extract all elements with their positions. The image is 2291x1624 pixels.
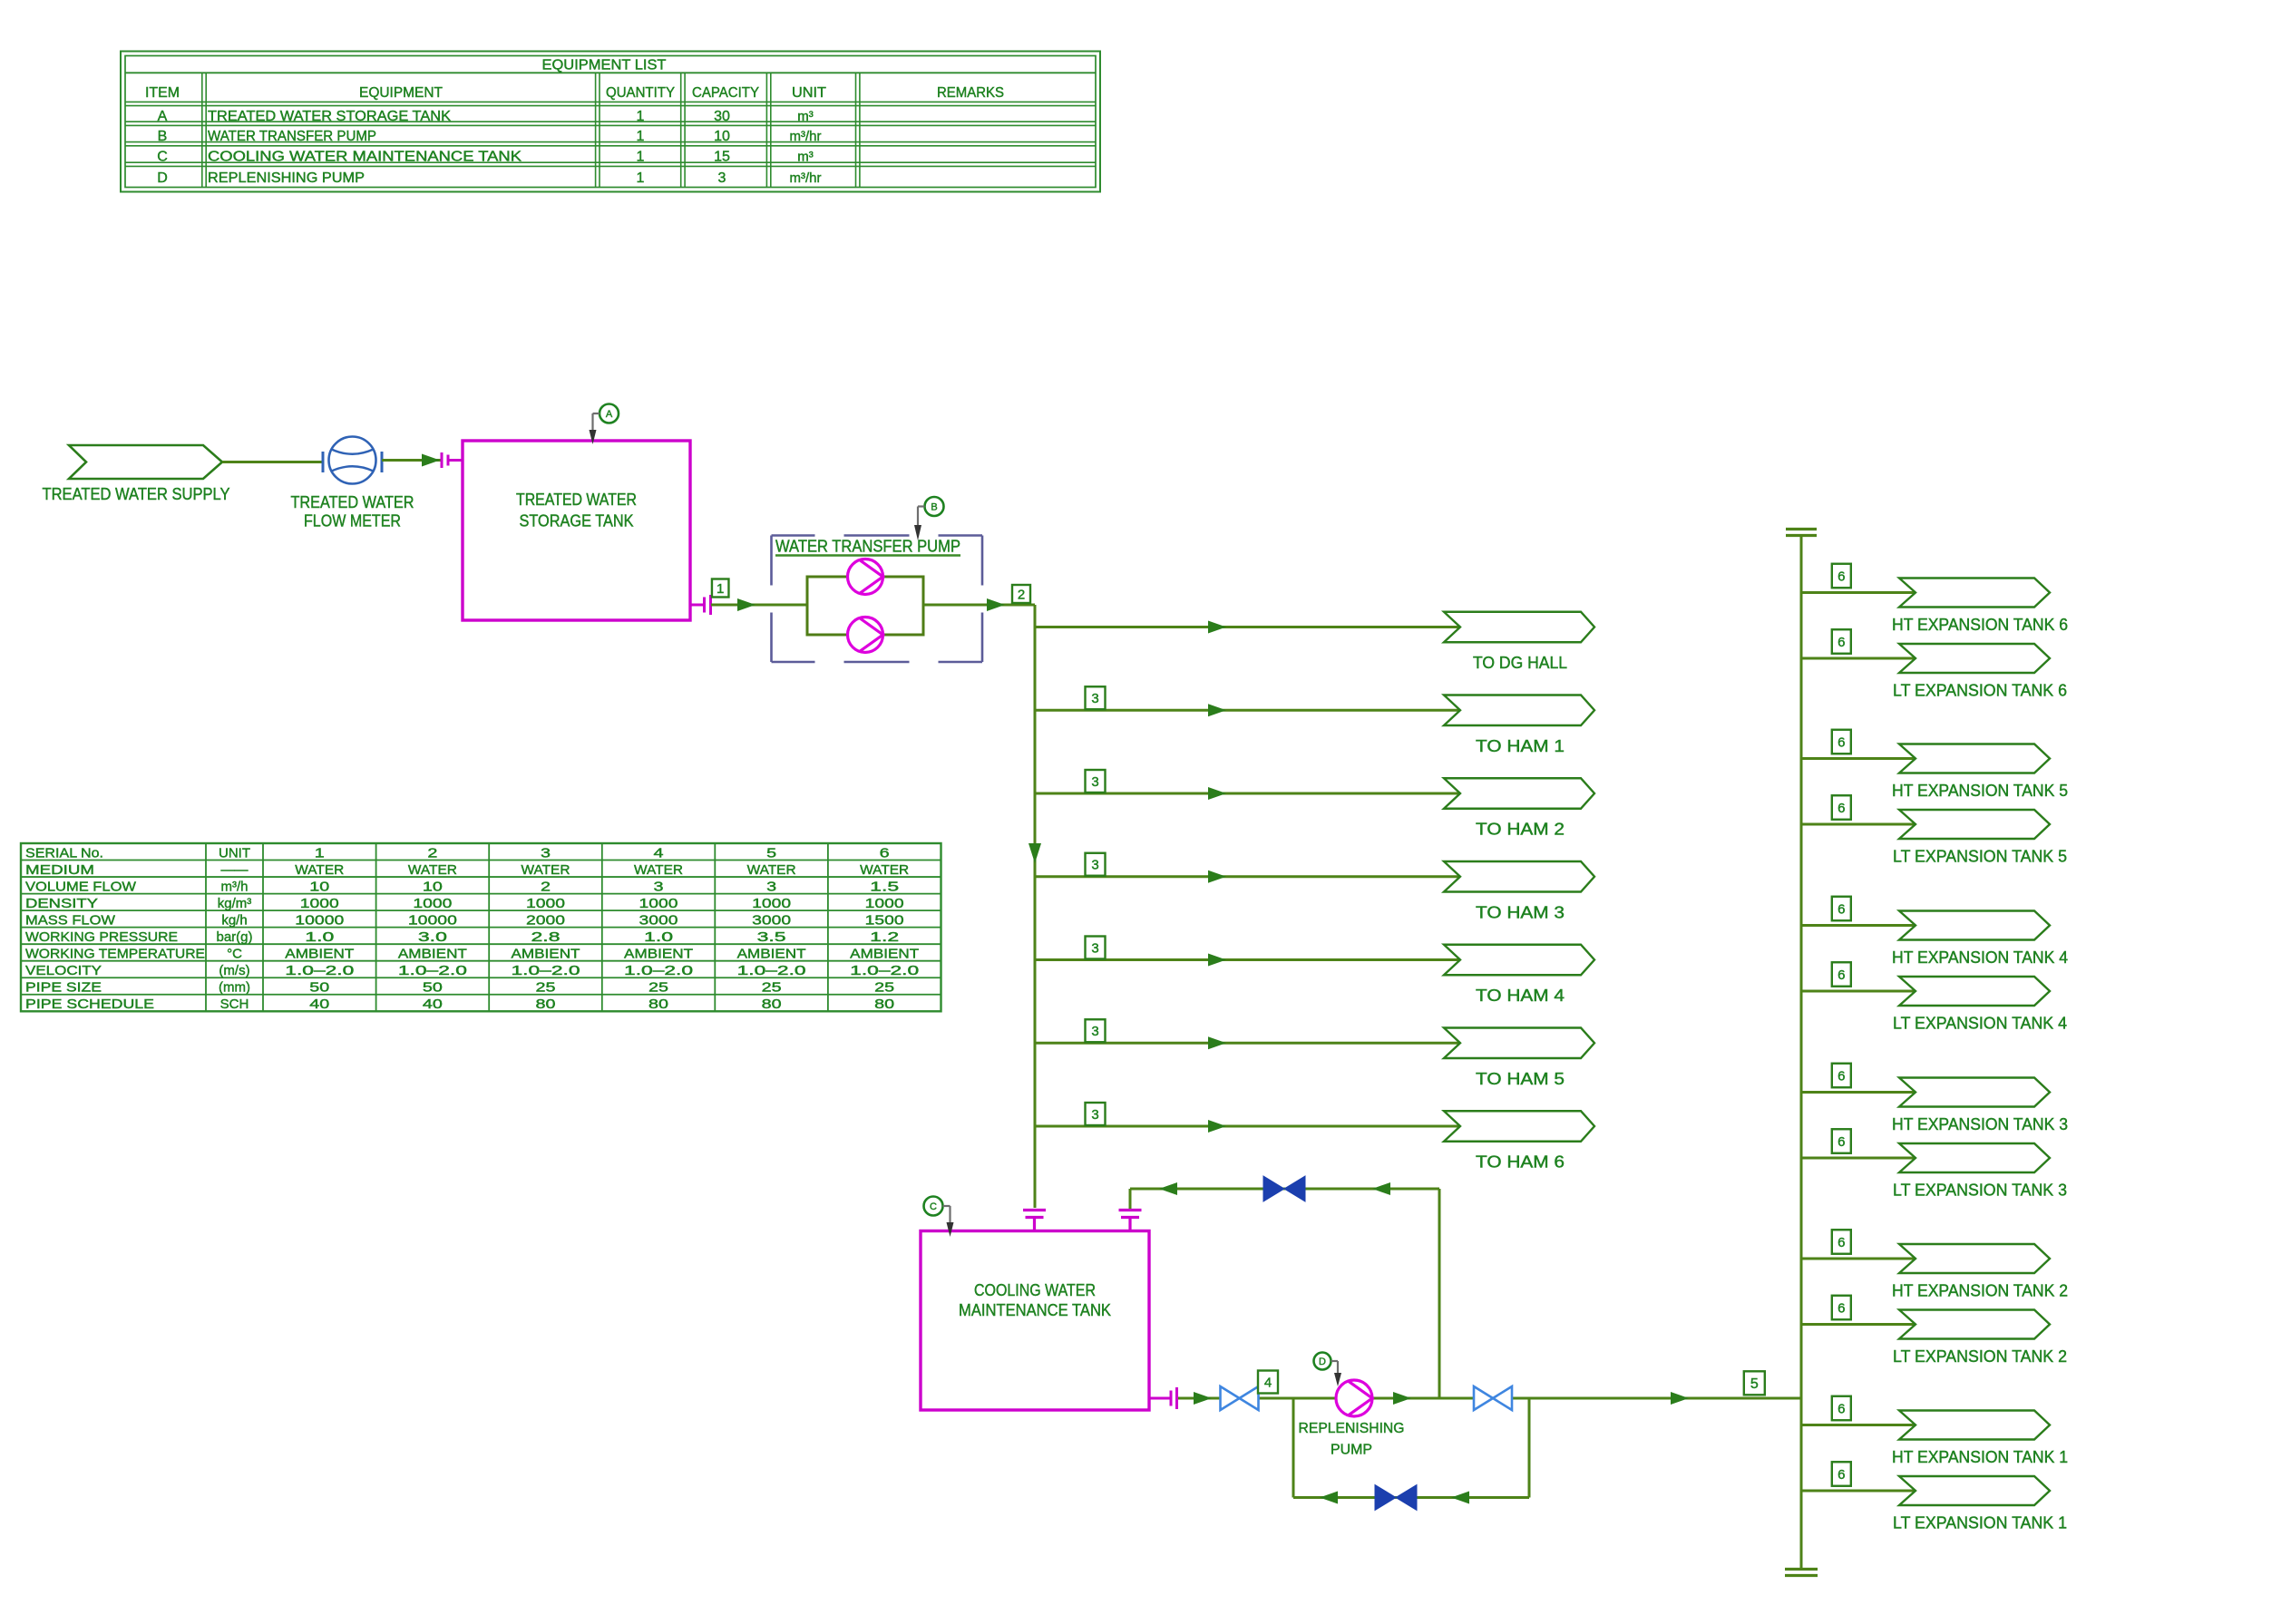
svg-text:TO HAM 3: TO HAM 3	[1476, 903, 1565, 921]
svg-text:TO HAM 6: TO HAM 6	[1476, 1153, 1565, 1172]
svg-text:°C: °C	[227, 946, 242, 961]
svg-text:D: D	[1319, 1357, 1326, 1367]
svg-text:ITEM: ITEM	[145, 85, 180, 101]
svg-text:WATER: WATER	[408, 862, 457, 878]
node 6 (HT 3)	[1832, 1064, 1851, 1088]
svg-text:FLOW METER: FLOW METER	[304, 512, 401, 530]
svg-text:m³: m³	[797, 109, 814, 124]
svg-text:WATER: WATER	[522, 862, 570, 878]
svg-text:2000: 2000	[526, 912, 565, 928]
valve (closed) on return bypass	[1263, 1176, 1305, 1201]
pump B (top)	[848, 559, 883, 595]
svg-text:TO HAM 4: TO HAM 4	[1476, 987, 1565, 1005]
pump parallel loop rectangle	[807, 577, 923, 635]
svg-text:LT EXPANSION TANK 1: LT EXPANSION TANK 1	[1893, 1514, 2067, 1532]
svg-text:MASS FLOW: MASS FLOW	[25, 912, 116, 928]
svg-text:AMBIENT: AMBIENT	[398, 946, 467, 961]
off-page connector banner TO HAM 2	[1444, 778, 1594, 809]
node 6 (LT 4)	[1832, 962, 1851, 987]
svg-text:m³/h: m³/h	[221, 879, 249, 894]
flow arrow	[737, 598, 756, 611]
off-page connector banner LT EXPANSION TANK 4	[1899, 977, 2050, 1006]
wire tank A outlet to pump loop	[711, 604, 807, 607]
gate valve (open)	[1221, 1386, 1259, 1410]
svg-text:3: 3	[654, 879, 664, 894]
instrument connector to pump D	[1331, 1360, 1339, 1362]
svg-text:1: 1	[637, 129, 645, 144]
svg-text:80: 80	[762, 997, 782, 1012]
header pipe cap (top)	[1786, 528, 1817, 530]
svg-text:3: 3	[766, 879, 776, 894]
svg-text:1: 1	[717, 581, 724, 597]
svg-text:1000: 1000	[639, 896, 678, 911]
serial data table	[21, 843, 941, 1012]
svg-text:1: 1	[637, 149, 645, 164]
svg-text:WATER TRANSFER PUMP: WATER TRANSFER PUMP	[775, 538, 960, 556]
svg-text:25: 25	[648, 980, 668, 996]
svg-text:40: 40	[309, 997, 329, 1012]
flange at tank A outlet	[690, 604, 705, 607]
svg-text:C: C	[930, 1201, 937, 1212]
svg-text:AMBIENT: AMBIENT	[285, 946, 354, 961]
off-page connector banner TO HAM 6	[1444, 1111, 1594, 1142]
svg-text:LT EXPANSION TANK 5: LT EXPANSION TANK 5	[1893, 848, 2067, 866]
svg-text:HT EXPANSION TANK 3: HT EXPANSION TANK 3	[1892, 1115, 2068, 1133]
svg-text:40: 40	[423, 997, 443, 1012]
svg-text:1.0–2.0: 1.0–2.0	[624, 963, 693, 978]
svg-text:2.8: 2.8	[531, 929, 561, 945]
treated water flow meter	[329, 437, 376, 484]
flow arrow into tank A	[422, 454, 440, 467]
svg-text:1.0: 1.0	[305, 929, 334, 945]
pump B (bottom)	[848, 618, 883, 653]
svg-text:REMARKS: REMARKS	[937, 85, 1004, 101]
svg-text:(mm): (mm)	[219, 980, 250, 996]
node 5	[1744, 1371, 1765, 1395]
svg-text:TO HAM 1: TO HAM 1	[1476, 737, 1565, 755]
instrument bubble D	[1314, 1353, 1331, 1370]
svg-text:D: D	[157, 170, 168, 186]
svg-text:EQUIPMENT: EQUIPMENT	[359, 85, 443, 101]
svg-text:WATER: WATER	[860, 862, 909, 878]
node 2	[1012, 585, 1030, 603]
node 3 (TO HAM 2)	[1086, 770, 1106, 793]
instrument connector to pump skid	[918, 505, 925, 507]
svg-text:TREATED WATER: TREATED WATER	[291, 493, 414, 511]
node 3 (TO HAM 6)	[1086, 1103, 1106, 1125]
svg-text:SERIAL No.: SERIAL No.	[25, 845, 103, 861]
svg-text:80: 80	[874, 997, 894, 1012]
off-page connector banner TO DG HALL	[1444, 612, 1594, 643]
svg-text:MAINTENANCE TANK: MAINTENANCE TANK	[959, 1301, 1111, 1319]
valve (closed) on pump bypass	[1375, 1485, 1417, 1511]
svg-text:1000: 1000	[865, 896, 904, 911]
svg-text:2: 2	[427, 845, 437, 861]
svg-text:m³/hr: m³/hr	[790, 129, 822, 144]
svg-text:10: 10	[309, 879, 329, 894]
flow arrow TO DG HALL	[1208, 621, 1226, 634]
pump bypass down wire (left)	[1292, 1398, 1295, 1498]
off-page connector banner LT EXPANSION TANK 3	[1899, 1143, 2050, 1172]
flow arrow to header	[1671, 1392, 1689, 1405]
svg-text:4: 4	[1264, 1375, 1272, 1390]
svg-text:TREATED WATER: TREATED WATER	[516, 491, 637, 509]
flange at tank A inlet	[441, 452, 444, 468]
node 4	[1258, 1371, 1278, 1394]
flow meter flange ticks	[322, 452, 325, 472]
branch wire: TO HAM 6	[1035, 1125, 1460, 1128]
svg-text:1.0: 1.0	[644, 929, 673, 945]
svg-text:3: 3	[1091, 858, 1098, 873]
svg-text:10: 10	[423, 879, 443, 894]
svg-text:1500: 1500	[865, 912, 904, 928]
node 6 (HT 1)	[1832, 1396, 1851, 1421]
pump bypass down wire (right)	[1528, 1398, 1531, 1498]
svg-text:B: B	[931, 502, 937, 513]
svg-text:AMBIENT: AMBIENT	[850, 946, 919, 961]
svg-text:WORKING TEMPERATURE: WORKING TEMPERATURE	[25, 946, 205, 961]
svg-text:HT EXPANSION TANK 1: HT EXPANSION TANK 1	[1892, 1448, 2068, 1466]
flow arrow left	[1320, 1492, 1338, 1504]
svg-text:1: 1	[637, 170, 645, 186]
off-page connector banner LT EXPANSION TANK 5	[1899, 810, 2050, 839]
svg-text:TREATED WATER SUPPLY: TREATED WATER SUPPLY	[43, 485, 230, 503]
instrument bubble C	[924, 1197, 943, 1216]
svg-text:6: 6	[1838, 801, 1845, 816]
svg-text:HT EXPANSION TANK 4: HT EXPANSION TANK 4	[1892, 948, 2068, 967]
tank C right top nozzle	[1119, 1209, 1142, 1211]
flow arrow	[987, 598, 1005, 611]
svg-text:AMBIENT: AMBIENT	[512, 946, 580, 961]
wire: return bypass elbow above tank C	[1129, 1189, 1132, 1209]
off-page connector banner HT EXPANSION TANK 2	[1899, 1244, 2050, 1273]
svg-text:1.2: 1.2	[870, 929, 899, 945]
off-page connector banner LT EXPANSION TANK 6	[1899, 644, 2050, 673]
node 6 (HT 2)	[1832, 1230, 1851, 1254]
flow arrow down	[1029, 843, 1041, 863]
svg-text:1000: 1000	[526, 896, 565, 911]
branch wire HT expansion tank 5	[1801, 757, 1916, 760]
off-page connector banner HT EXPANSION TANK 1	[1899, 1411, 2050, 1440]
flange at tank C outlet	[1149, 1397, 1171, 1400]
svg-text:1000: 1000	[752, 896, 791, 911]
svg-text:WATER: WATER	[747, 862, 796, 878]
svg-text:AMBIENT: AMBIENT	[737, 946, 806, 961]
svg-text:MEDIUM: MEDIUM	[25, 862, 94, 878]
svg-text:A: A	[606, 409, 613, 420]
gate valve (open) 2	[1474, 1386, 1512, 1410]
svg-text:6: 6	[1838, 1068, 1845, 1084]
svg-text:m³: m³	[797, 149, 814, 164]
svg-text:REPLENISHING: REPLENISHING	[1299, 1421, 1405, 1436]
svg-text:3: 3	[1091, 691, 1098, 706]
node 3 (TO HAM 1)	[1086, 686, 1106, 709]
branch wire LT expansion tank 2	[1801, 1323, 1916, 1326]
svg-text:bar(g): bar(g)	[216, 929, 252, 945]
svg-text:80: 80	[648, 997, 668, 1012]
svg-text:LT EXPANSION TANK 4: LT EXPANSION TANK 4	[1893, 1015, 2067, 1033]
branch wire HT expansion tank 4	[1801, 924, 1916, 927]
node 3 (TO HAM 3)	[1086, 853, 1106, 876]
svg-text:4: 4	[654, 845, 664, 861]
tank C left top nozzle	[1023, 1209, 1046, 1211]
node 6 (LT 2)	[1832, 1296, 1851, 1320]
off-page connector banner HT EXPANSION TANK 4	[1899, 911, 2050, 940]
svg-text:25: 25	[874, 980, 894, 996]
equipment A: TREATED WATER STORAGE TANK	[463, 441, 690, 620]
svg-text:TREATED WATER STORAGE TANK: TREATED WATER STORAGE TANK	[208, 109, 451, 124]
svg-text:SCH: SCH	[220, 997, 249, 1012]
svg-text:10: 10	[714, 129, 730, 144]
wire: vertical distribution drop from node 2	[1034, 605, 1037, 1208]
flow arrow TO HAM 3	[1208, 870, 1226, 883]
svg-text:25: 25	[762, 980, 782, 996]
svg-text:50: 50	[423, 980, 443, 996]
branch wire: TO HAM 5	[1035, 1042, 1460, 1045]
svg-text:1.0–2.0: 1.0–2.0	[850, 963, 919, 978]
instrument connector to tank A	[593, 413, 600, 414]
svg-text:TO HAM 2: TO HAM 2	[1476, 821, 1565, 839]
off-page connector banner LT EXPANSION TANK 1	[1899, 1476, 2050, 1505]
branch wire HT expansion tank 6	[1801, 591, 1916, 594]
svg-text:1.0–2.0: 1.0–2.0	[398, 963, 467, 978]
node 6 (HT 6)	[1832, 564, 1851, 588]
node 6 (LT 6)	[1832, 629, 1851, 654]
branch wire: TO HAM 4	[1035, 958, 1460, 961]
node 6 (HT 4)	[1832, 897, 1851, 921]
instrument connector to tank C	[943, 1205, 951, 1207]
svg-text:6: 6	[1838, 968, 1845, 983]
flow arrow TO HAM 6	[1208, 1120, 1226, 1133]
off-page connector banner HT EXPANSION TANK 3	[1899, 1078, 2050, 1107]
flow arrow TO HAM 1	[1208, 704, 1226, 716]
branch wire: TO HAM 3	[1035, 875, 1460, 878]
branch wire LT expansion tank 5	[1801, 823, 1916, 826]
svg-text:COOLING WATER MAINTENANCE TANK: COOLING WATER MAINTENANCE TANK	[208, 149, 522, 164]
svg-text:WATER TRANSFER PUMP: WATER TRANSFER PUMP	[208, 129, 376, 144]
svg-text:WORKING PRESSURE: WORKING PRESSURE	[25, 929, 178, 945]
svg-text:6: 6	[880, 845, 890, 861]
branch wire LT expansion tank 1	[1801, 1490, 1916, 1493]
svg-text:50: 50	[309, 980, 329, 996]
node 6 (HT 5)	[1832, 730, 1851, 754]
svg-text:m³/hr: m³/hr	[790, 170, 822, 186]
svg-text:HT EXPANSION TANK 2: HT EXPANSION TANK 2	[1892, 1282, 2068, 1300]
svg-text:6: 6	[1838, 1300, 1845, 1316]
svg-text:2: 2	[541, 879, 551, 894]
node 1	[712, 579, 729, 598]
svg-text:STORAGE TANK: STORAGE TANK	[520, 512, 634, 530]
branch wire LT expansion tank 6	[1801, 657, 1916, 660]
off-page connector banner LT EXPANSION TANK 2	[1899, 1310, 2050, 1339]
svg-text:10000: 10000	[408, 912, 457, 928]
svg-text:DENSITY: DENSITY	[25, 896, 98, 911]
svg-text:WATER: WATER	[634, 862, 683, 878]
flow arrow TO HAM 4	[1208, 954, 1226, 967]
svg-text:A: A	[158, 109, 168, 124]
svg-text:VOLUME FLOW: VOLUME FLOW	[25, 879, 137, 894]
equipment list table	[121, 52, 1100, 192]
wire: flow meter to tank A	[382, 459, 441, 462]
svg-text:WATER: WATER	[295, 862, 344, 878]
svg-text:6: 6	[1838, 1401, 1845, 1416]
svg-text:80: 80	[536, 997, 556, 1012]
svg-text:6: 6	[1838, 1134, 1845, 1150]
flow arrow TO HAM 5	[1208, 1036, 1226, 1049]
svg-text:1.0–2.0: 1.0–2.0	[737, 963, 806, 978]
flow arrow	[1194, 1392, 1212, 1405]
branch wire LT expansion tank 4	[1801, 990, 1916, 993]
svg-text:PUMP: PUMP	[1331, 1443, 1372, 1458]
svg-text:6: 6	[1838, 635, 1845, 650]
svg-text:kg/h: kg/h	[221, 912, 247, 928]
svg-text:10000: 10000	[295, 912, 344, 928]
instrument bubble A	[600, 404, 619, 423]
node 6 (LT 5)	[1832, 795, 1851, 820]
branch wire: TO HAM 2	[1035, 793, 1460, 795]
flow arrow left (return)	[1159, 1182, 1177, 1195]
svg-text:2: 2	[1018, 587, 1025, 602]
svg-text:6: 6	[1838, 901, 1845, 917]
svg-text:COOLING WATER: COOLING WATER	[974, 1281, 1096, 1299]
svg-text:5: 5	[766, 845, 776, 861]
svg-text:25: 25	[536, 980, 556, 996]
svg-text:1.0–2.0: 1.0–2.0	[285, 963, 354, 978]
svg-text:3: 3	[1091, 774, 1098, 790]
off-page connector banner HT EXPANSION TANK 6	[1899, 579, 2050, 608]
svg-text:EQUIPMENT LIST: EQUIPMENT LIST	[542, 58, 667, 73]
svg-text:5: 5	[1750, 1376, 1759, 1392]
svg-text:CAPACITY: CAPACITY	[692, 85, 759, 101]
branch wire LT expansion tank 3	[1801, 1157, 1916, 1160]
svg-text:1000: 1000	[413, 896, 452, 911]
svg-text:6: 6	[1838, 1235, 1845, 1250]
flow arrow after pump	[1393, 1392, 1411, 1405]
node 3 (TO HAM 4)	[1086, 937, 1106, 959]
svg-text:REPLENISHING PUMP: REPLENISHING PUMP	[208, 170, 365, 186]
wire pump loop to node 2	[923, 604, 1035, 607]
svg-text:LT EXPANSION TANK 3: LT EXPANSION TANK 3	[1893, 1182, 2067, 1200]
svg-text:HT EXPANSION TANK 5: HT EXPANSION TANK 5	[1892, 782, 2068, 800]
branch wire: TO DG HALL	[1035, 626, 1460, 628]
svg-text:3.5: 3.5	[757, 929, 786, 945]
svg-text:LT EXPANSION TANK 2: LT EXPANSION TANK 2	[1893, 1347, 2067, 1366]
svg-text:30: 30	[714, 109, 730, 124]
svg-text:LT EXPANSION TANK 6: LT EXPANSION TANK 6	[1893, 682, 2067, 700]
branch wire HT expansion tank 3	[1801, 1091, 1916, 1094]
svg-text:AMBIENT: AMBIENT	[624, 946, 693, 961]
flow arrow left (return)	[1372, 1182, 1390, 1195]
branch wire HT expansion tank 1	[1801, 1424, 1916, 1426]
off-page connector banner TO HAM 4	[1444, 945, 1594, 976]
svg-text:PIPE SIZE: PIPE SIZE	[25, 980, 102, 996]
svg-text:3000: 3000	[752, 912, 791, 928]
svg-text:1.0–2.0: 1.0–2.0	[512, 963, 580, 978]
off-page connector banner TO HAM 3	[1444, 861, 1594, 892]
flow arrow TO HAM 2	[1208, 787, 1226, 800]
svg-text:3: 3	[1091, 1107, 1098, 1123]
wire: bypass riser	[1438, 1189, 1441, 1398]
svg-text:1: 1	[637, 109, 645, 124]
wire: expansion header	[1800, 536, 1803, 1570]
svg-text:QUANTITY: QUANTITY	[606, 85, 675, 101]
node 6 (LT 1)	[1832, 1462, 1851, 1486]
off-page connector banner TO HAM 5	[1444, 1028, 1594, 1059]
svg-text:6: 6	[1838, 1467, 1845, 1483]
wire: pump bypass	[1293, 1496, 1529, 1499]
svg-text:3: 3	[541, 845, 551, 861]
svg-text:1000: 1000	[300, 896, 339, 911]
svg-text:B: B	[158, 129, 168, 144]
svg-text:1: 1	[315, 845, 325, 861]
svg-text:VELOCITY: VELOCITY	[25, 963, 102, 978]
instrument bubble B	[925, 497, 944, 516]
svg-text:1.5: 1.5	[870, 879, 899, 894]
svg-text:3: 3	[1091, 1024, 1098, 1039]
equipment D: replenishing pump	[1336, 1380, 1372, 1416]
node 3 (TO HAM 5)	[1086, 1019, 1106, 1042]
branch wire: TO HAM 1	[1035, 709, 1460, 712]
svg-text:3: 3	[718, 170, 726, 186]
header pipe cap (bottom)	[1785, 1568, 1818, 1571]
equipment C: COOLING WATER MAINTENANCE TANK	[921, 1231, 1149, 1411]
svg-text:kg/m³: kg/m³	[218, 896, 252, 911]
off-page connector: TREATED WATER SUPPLY banner	[69, 445, 222, 479]
svg-text:3000: 3000	[639, 912, 678, 928]
svg-text:UNIT: UNIT	[219, 845, 250, 861]
svg-text:HT EXPANSION TANK 6: HT EXPANSION TANK 6	[1892, 616, 2068, 634]
dashed enclosure: water transfer pump skid	[772, 534, 815, 537]
svg-text:3.0: 3.0	[418, 929, 447, 945]
wire tank C outlet	[1178, 1397, 1801, 1400]
svg-text:6: 6	[1838, 734, 1845, 750]
svg-text:UNIT: UNIT	[792, 85, 826, 101]
svg-text:TO DG HALL: TO DG HALL	[1473, 654, 1567, 672]
svg-text:3: 3	[1091, 940, 1098, 956]
svg-text:——: ——	[221, 862, 249, 878]
off-page connector banner HT EXPANSION TANK 5	[1899, 744, 2050, 773]
svg-text:TO HAM 5: TO HAM 5	[1476, 1070, 1565, 1088]
svg-text:PIPE SCHEDULE: PIPE SCHEDULE	[25, 997, 154, 1012]
off-page connector banner TO HAM 1	[1444, 695, 1594, 726]
wire: supply line to flow meter	[222, 461, 323, 463]
branch wire HT expansion tank 2	[1801, 1258, 1916, 1260]
node 6 (LT 3)	[1832, 1129, 1851, 1153]
svg-text:15: 15	[714, 149, 730, 164]
svg-text:6: 6	[1838, 569, 1845, 584]
svg-text:(m/s): (m/s)	[219, 963, 249, 978]
svg-text:C: C	[157, 149, 168, 164]
flow arrow left	[1451, 1492, 1469, 1504]
